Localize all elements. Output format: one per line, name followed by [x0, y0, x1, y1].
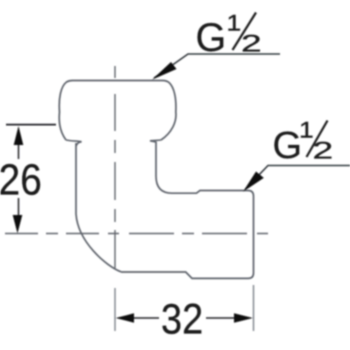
body left edge + outer elbow arc	[76, 143, 121, 272]
32 left arrow	[116, 313, 135, 322]
svg-text:26: 26	[0, 154, 42, 204]
outlet top edge (neck + step + end)	[172, 191, 254, 197]
body right edge + inner elbow curve	[156, 142, 172, 194]
vertical extension line (32 dim, left)	[114, 288, 116, 331]
top label leader + underline	[154, 54, 280, 78]
vertical centerline	[114, 66, 116, 268]
26 up arrow	[14, 126, 24, 145]
32 dimension line	[133, 317, 234, 319]
right leader arrowhead	[243, 172, 264, 192]
cap bottom right ledge	[150, 140, 161, 142]
label 26	[0, 154, 42, 204]
svg-text:32: 32	[161, 294, 203, 343]
svg-text:2: 2	[313, 137, 334, 164]
32 right extension line	[253, 285, 255, 331]
svg-text:1: 1	[227, 11, 242, 35]
outlet bottom edge (end + step + neck)	[121, 272, 254, 278]
cap bottom left ledge	[66, 140, 82, 146]
26 down arrow	[13, 215, 23, 234]
top leader arrowhead	[152, 62, 177, 80]
right G1/2 label	[273, 118, 334, 167]
label 32	[161, 294, 203, 343]
32 right arrow	[234, 313, 253, 322]
right label leader + underline	[245, 166, 350, 190]
svg-text:1: 1	[299, 118, 314, 142]
svg-text:2: 2	[241, 30, 262, 57]
svg-text:G: G	[273, 125, 303, 167]
top G1/2 label	[196, 11, 262, 60]
26 dimension line	[18, 145, 20, 216]
cap (top nut silhouette)	[59, 81, 176, 141]
horizontal centerline	[5, 233, 268, 235]
outlet right edge	[253, 196, 255, 273]
26 dimension tick (top)	[6, 124, 56, 126]
